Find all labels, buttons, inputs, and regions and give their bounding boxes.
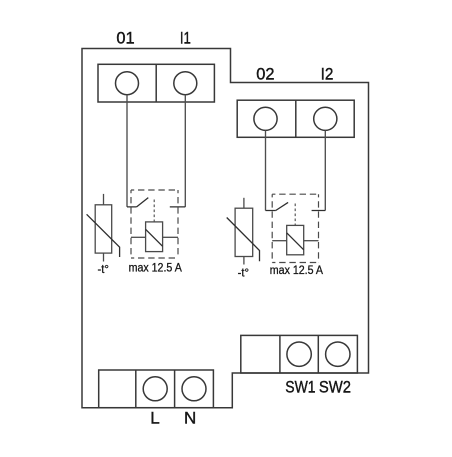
thermistor -t deg (2) [227, 198, 260, 265]
mechanical link 2 [294, 204, 296, 226]
svg-text:I1: I1 [180, 29, 191, 48]
switch S1 contacts [127, 206, 185, 208]
wire from I2 [324, 130, 326, 210]
wire from O1 [126, 95, 128, 207]
terminal block O2/I2 [237, 100, 354, 137]
svg-text:max 12.5 A: max 12.5 A [129, 261, 183, 275]
svg-text:-t°: -t° [238, 265, 250, 279]
svg-text:N: N [184, 409, 196, 428]
terminal block SW1/SW2 [241, 335, 358, 373]
wire from I1 [184, 95, 186, 207]
thermistor -t deg (1) [87, 194, 120, 262]
svg-text:SW1: SW1 [285, 378, 315, 397]
svg-text:02: 02 [256, 64, 274, 83]
terminal block L/N [99, 370, 214, 408]
wire from O2 [265, 130, 267, 210]
svg-text:max 12.5 A: max 12.5 A [270, 263, 324, 277]
relay coil K1 [131, 222, 178, 252]
device outline [82, 49, 369, 408]
switch S1 blade [137, 198, 149, 207]
switch S2 blade [276, 202, 288, 210]
svg-text:I2: I2 [321, 64, 334, 83]
dashed enclosure relay 2 [272, 194, 318, 262]
dashed enclosure relay 1 [131, 190, 178, 258]
switch S2 contacts [266, 210, 326, 212]
terminal block O1/I1 [98, 64, 214, 102]
svg-text:SW2: SW2 [319, 378, 351, 397]
mechanical link 1 [153, 200, 155, 222]
svg-text:01: 01 [116, 29, 134, 48]
svg-text:-t°: -t° [98, 262, 110, 276]
svg-text:L: L [150, 409, 159, 428]
relay coil K2 [272, 225, 318, 254]
